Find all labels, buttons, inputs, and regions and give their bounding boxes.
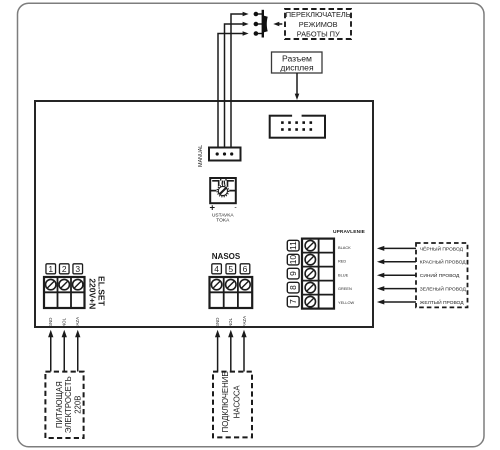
connector X2 pins: [216, 152, 234, 155]
svg-text:дисплея: дисплея: [280, 62, 314, 72]
screw terminal 2: [59, 279, 69, 289]
pump wire arrow 2: [228, 330, 233, 372]
svg-text:NOL: NOL: [62, 317, 67, 327]
screw terminal 6: [240, 279, 250, 289]
terminal block X5 UPRAVLENIE body: [302, 239, 334, 309]
mains wire arrow 2: [62, 330, 67, 372]
label box: Razyem displeya: [272, 52, 323, 73]
screw terminal 9: [305, 268, 315, 278]
arrow from mode switch label to SW1: [273, 22, 282, 27]
dashed box: control cable wires: [416, 243, 468, 307]
screw terminal 1: [46, 279, 56, 289]
wire MANUAL pin1 to switch top: [231, 12, 249, 148]
trimmer RP1 body: [210, 178, 236, 203]
terminal pin box 10: [287, 254, 299, 265]
svg-text:2: 2: [62, 264, 67, 274]
svg-text:BLACK: BLACK: [338, 245, 351, 250]
wire MANUAL pin2 to switch middle: [225, 22, 249, 148]
svg-text:MANUAL: MANUAL: [198, 145, 204, 167]
terminal pin box 1: [46, 264, 56, 274]
svg-text:РАБОТЫ ПУ: РАБОТЫ ПУ: [297, 30, 340, 39]
terminal pin box 5: [226, 264, 236, 274]
svg-text:NASOS: NASOS: [212, 252, 241, 261]
screw terminal 3: [73, 279, 83, 289]
svg-text:FAZA: FAZA: [242, 316, 247, 327]
display connector X1 on board: [270, 116, 325, 138]
dashed label box: mode switch: [285, 9, 351, 39]
svg-text:YELLOW: YELLOW: [338, 300, 355, 305]
svg-text:1: 1: [48, 264, 53, 274]
svg-text:ЭЛЕКТРОСЕТЬ: ЭЛЕКТРОСЕТЬ: [64, 376, 73, 433]
svg-text:RED: RED: [338, 259, 346, 264]
svg-text:ПЕРЕКЛЮЧАТЕЛЬ: ПЕРЕКЛЮЧАТЕЛЬ: [286, 10, 351, 19]
label pitayushchaya elektroset 220V: [55, 376, 83, 433]
control wire black: [377, 246, 416, 251]
svg-text:6: 6: [243, 264, 248, 274]
pump wire arrow 1: [215, 330, 220, 372]
mode switch SW1 common bar: [262, 10, 264, 38]
trimmer RP1 screw slot: [220, 188, 227, 194]
mains wire arrow 3: [75, 330, 80, 372]
dashed box: mains supply: [45, 372, 83, 438]
svg-text:РЕЖИМОВ: РЕЖИМОВ: [299, 20, 338, 29]
svg-text:9: 9: [288, 271, 298, 276]
svg-text:10: 10: [288, 255, 298, 265]
mains wire arrow 1: [48, 330, 53, 372]
trimmer RP1 screw rim: [218, 186, 227, 195]
svg-text:GND: GND: [48, 318, 53, 328]
display connector X1 pins: [281, 121, 312, 131]
screw terminal 11: [305, 240, 315, 250]
label EL.SET 220V+N: [87, 276, 106, 309]
terminal pin box 4: [212, 264, 222, 274]
trimmer RP1 screw knurl: [217, 185, 228, 196]
trimmer RP1 right bracket: [228, 181, 234, 190]
svg-text:GREEN: GREEN: [338, 286, 352, 291]
label podklyuchenie nasosa: [221, 371, 241, 432]
terminal pin box 2: [59, 264, 69, 274]
svg-text:+: +: [210, 203, 216, 214]
svg-text:NOL: NOL: [228, 317, 233, 327]
screw terminal 10: [305, 254, 315, 264]
terminal pin box 3: [73, 264, 83, 274]
trimmer RP1 left bracket: [212, 181, 219, 190]
trimmer RP1 inner shelf line: [210, 190, 236, 192]
label PEREKLYUCHATEL REZHIMOV RABOTY PU: [286, 10, 351, 38]
dashed box: pump connection: [213, 372, 252, 438]
svg-text:7: 7: [288, 299, 298, 304]
terminal pin box 7: [287, 296, 299, 307]
screw terminal 8: [305, 282, 315, 292]
control wire yellow: [377, 300, 416, 305]
svg-text:220В: 220В: [74, 396, 83, 414]
svg-text:220V+N: 220V+N: [87, 278, 97, 309]
svg-text:FAZA: FAZA: [75, 317, 80, 328]
svg-text:GND: GND: [215, 318, 220, 328]
svg-text:4: 4: [214, 264, 219, 274]
pump wire arrow 3: [241, 330, 246, 372]
screw terminal 5: [226, 279, 236, 289]
svg-text:BLUE: BLUE: [338, 272, 349, 277]
mode switch SW1 contact dots: [254, 12, 259, 36]
connector X2 MANUAL body: [209, 148, 241, 161]
display connector X1 notch: [292, 114, 302, 117]
terminal pin box 8: [287, 282, 299, 293]
svg-text:UPRAVLENIE: UPRAVLENIE: [333, 229, 366, 235]
svg-text:11: 11: [288, 241, 298, 250]
mode switch SW1 contact stubs: [256, 14, 263, 34]
svg-text:НАСОСА: НАСОСА: [232, 385, 241, 419]
mode switch SW1 wiper blob: [262, 15, 267, 33]
screw terminal 7: [305, 296, 315, 306]
control wire red: [377, 259, 416, 264]
terminal pin box 9: [287, 268, 299, 279]
terminal block X4 NASOS body: [210, 277, 253, 308]
control wire blue: [377, 273, 416, 278]
svg-text:ПОДКЛЮЧЕНИЕ: ПОДКЛЮЧЕНИЕ: [221, 371, 230, 432]
screw terminal 4: [211, 279, 221, 289]
svg-text:ПИТАЮЩАЯ: ПИТАЮЩАЯ: [55, 381, 64, 428]
svg-text:5: 5: [228, 264, 233, 274]
svg-text:8: 8: [288, 285, 298, 290]
control wire green: [377, 286, 416, 291]
trimmer RP1 screw mask: [216, 185, 229, 198]
terminal pin box 11: [287, 240, 299, 251]
label USTAVKA TOKA: [212, 213, 234, 224]
terminal pin box 6: [240, 264, 250, 274]
terminal block X3 EL.SET body: [44, 277, 85, 308]
svg-text:3: 3: [75, 264, 80, 274]
wire MANUAL pin3 to switch bottom: [218, 31, 249, 147]
trimmer RP1 tab cap: [221, 178, 226, 186]
svg-text:TOKA: TOKA: [216, 218, 230, 224]
arrow display label to board: [295, 73, 300, 100]
control board PCB outline: [35, 101, 373, 327]
